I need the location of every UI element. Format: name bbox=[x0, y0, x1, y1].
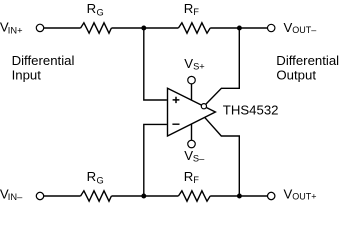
terminal VOUT+ bbox=[268, 192, 275, 199]
terminal VS- bbox=[188, 140, 196, 148]
wire non-inverted output down to node C bbox=[205, 117, 240, 195]
svg-text:Differential: Differential bbox=[12, 53, 75, 68]
svg-text:V: V bbox=[284, 186, 293, 201]
svg-text:OUT+: OUT+ bbox=[292, 192, 316, 202]
svg-text:IN–: IN– bbox=[8, 192, 23, 202]
terminal VIN- bbox=[36, 192, 43, 199]
wire RF bottom to VOUT+ terminal bbox=[210, 195, 267, 197]
wire VIN+ to RG top bbox=[44, 27, 81, 29]
resistor RF (bottom) bbox=[178, 191, 210, 201]
resistor RG (bottom) bbox=[81, 191, 112, 201]
svg-text:F: F bbox=[193, 175, 199, 185]
minus input marker bbox=[172, 123, 179, 125]
svg-text:R: R bbox=[87, 169, 97, 184]
svg-text:V: V bbox=[184, 56, 193, 71]
wire RG top to RF top (node A) bbox=[111, 27, 178, 29]
op-amp U1 THS4532 triangle bbox=[168, 88, 216, 136]
wire node A down to + input bbox=[144, 29, 167, 100]
plus input marker bbox=[173, 97, 180, 103]
junction node C (bottom output) bbox=[237, 194, 242, 199]
svg-text:G: G bbox=[97, 175, 104, 185]
junction node B (top output) bbox=[237, 26, 242, 31]
svg-text:R: R bbox=[87, 1, 97, 16]
svg-text:IN+: IN+ bbox=[8, 25, 23, 35]
svg-text:R: R bbox=[184, 169, 194, 184]
svg-text:R: R bbox=[184, 1, 194, 16]
wire RG bottom to RF bottom (node D) bbox=[111, 195, 178, 197]
terminal VIN+ bbox=[36, 24, 43, 31]
terminal VOUT- bbox=[268, 24, 275, 31]
inverting output bubble bbox=[201, 104, 206, 109]
svg-text:Input: Input bbox=[12, 68, 42, 83]
svg-text:Output: Output bbox=[276, 68, 316, 83]
svg-text:OUT–: OUT– bbox=[292, 25, 316, 35]
svg-text:Differential: Differential bbox=[276, 53, 339, 68]
svg-text:S+: S+ bbox=[193, 62, 205, 72]
wire inverted output up to node B bbox=[206, 29, 240, 105]
svg-text:G: G bbox=[97, 7, 104, 17]
wire VIN- to RG bottom bbox=[44, 195, 81, 197]
svg-text:F: F bbox=[193, 7, 199, 17]
svg-text:S–: S– bbox=[193, 154, 205, 164]
junction node D bbox=[141, 194, 146, 199]
svg-text:V: V bbox=[284, 20, 293, 35]
wire node D up to - input bbox=[144, 124, 167, 195]
junction node A bbox=[141, 26, 146, 31]
resistor RF (top) bbox=[178, 23, 210, 33]
resistor RG (top) bbox=[81, 23, 112, 33]
wire op-amp bottom edge to VS- bbox=[191, 124, 193, 140]
terminal VS+ bbox=[188, 76, 196, 84]
wire VS+ to op-amp top edge bbox=[191, 84, 193, 100]
svg-text:THS4532: THS4532 bbox=[223, 103, 279, 118]
wire RF top to VOUT- terminal bbox=[210, 27, 267, 29]
